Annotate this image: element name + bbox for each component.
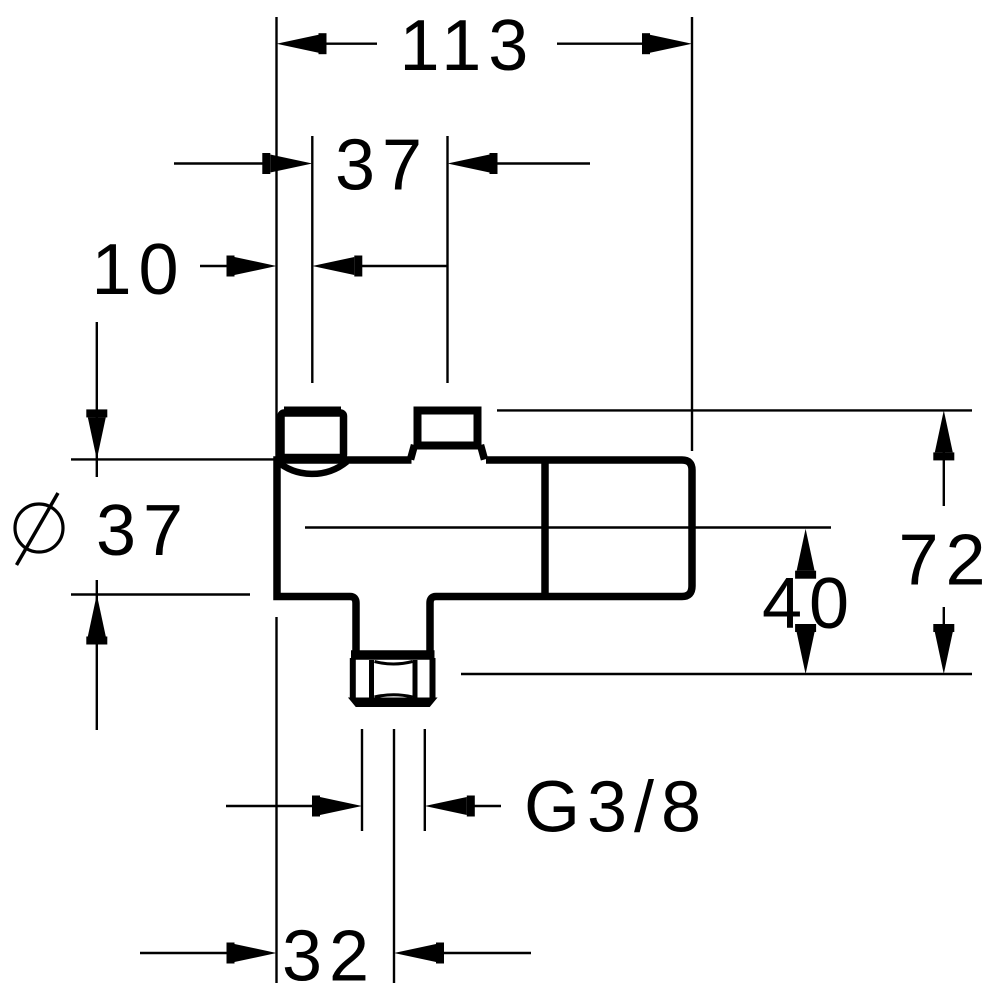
arrow 10 right (points left): [312, 257, 354, 275]
arrow 40 top (points up): [797, 529, 815, 571]
arrow 37 left (points right): [270, 155, 312, 173]
dim 10 tail left: [200, 265, 232, 267]
dim 72 tail upper: [943, 450, 945, 506]
extension line left body edge top: [275, 17, 277, 457]
centerline horizontal axis: [305, 526, 831, 528]
boss 2 left foot: [411, 445, 415, 460]
nut facet line right: [413, 660, 418, 699]
dim 32 tail right: [438, 952, 531, 954]
nut top bar: [351, 650, 435, 660]
dim G3/8 tail left: [226, 805, 320, 807]
extension line thread left: [361, 729, 363, 831]
nut left edge: [350, 658, 356, 699]
dim 32 tail left: [140, 952, 234, 954]
arrow 32 left (points right): [235, 944, 277, 962]
svg-text:37: 37: [96, 491, 190, 571]
arrow G38 right (points left): [425, 797, 467, 815]
diameter symbol circle: [15, 504, 63, 552]
diameter symbol slash: [17, 493, 59, 565]
extension line top of bosses right: [497, 409, 972, 411]
arrow 37 right (points left): [448, 155, 490, 173]
arrow 40 bottom (points down): [797, 632, 815, 674]
body divider line: [541, 460, 549, 597]
seat arc under boss 1: [276, 461, 347, 474]
extension line thread right: [424, 729, 426, 831]
body outline right part: [430, 460, 692, 651]
extension line stem centerline: [393, 729, 395, 983]
dim 72 tail lower: [943, 607, 945, 636]
svg-text:113: 113: [400, 6, 536, 86]
svg-text:40: 40: [762, 564, 856, 644]
nut right edge: [430, 658, 436, 699]
extension line left body edge bottom: [275, 617, 277, 983]
arrow 32 right (points left): [394, 944, 436, 962]
arrow dia37 bottom (points up): [88, 595, 106, 637]
body outline left part: [277, 460, 412, 651]
nut bottom bar: [349, 698, 437, 707]
arrow G38 left (points right): [320, 797, 362, 815]
extension line bump1 center: [311, 136, 313, 383]
extension line body top left (dia37 top): [71, 458, 277, 460]
dim 113 line left: [319, 43, 377, 45]
dim 113 line right: [557, 43, 648, 45]
boss 2 right foot: [481, 445, 485, 460]
arrow 72 bottom (points down): [935, 632, 953, 674]
arrow 113 right: [650, 35, 692, 53]
dim 10 tail right: [356, 265, 447, 267]
dim G3/8 tail right: [468, 805, 501, 807]
nut facet line left: [369, 660, 374, 699]
svg-text:10: 10: [92, 230, 186, 310]
extension line outlet level right: [461, 673, 972, 675]
svg-text:G3/8: G3/8: [524, 768, 708, 848]
arrow 72 top (points up): [935, 410, 953, 452]
dim 37 tail left: [174, 162, 268, 164]
dim 37 tail right: [491, 162, 590, 164]
arrow 113 left: [277, 35, 319, 53]
nut center facet bottom arc: [375, 695, 413, 697]
svg-text:37: 37: [335, 125, 429, 205]
svg-text:72: 72: [899, 521, 993, 601]
extension line right body edge: [691, 17, 693, 451]
extension line body bottom left (dia37 bottom): [71, 593, 250, 595]
arrow 10 left (points right): [235, 257, 277, 275]
svg-text:32: 32: [282, 917, 376, 997]
extension line bump2 center: [446, 136, 448, 383]
boss 1 (left) rounded box: [281, 413, 344, 458]
arrow dia37 top (points down): [88, 417, 106, 459]
dim dia37 line lower: [96, 580, 98, 730]
dim dia37 line upper: [96, 322, 98, 477]
boss 2 box: [418, 411, 478, 446]
boss 1 top accent bar: [284, 407, 341, 412]
nut center facet top arc: [375, 662, 413, 665]
